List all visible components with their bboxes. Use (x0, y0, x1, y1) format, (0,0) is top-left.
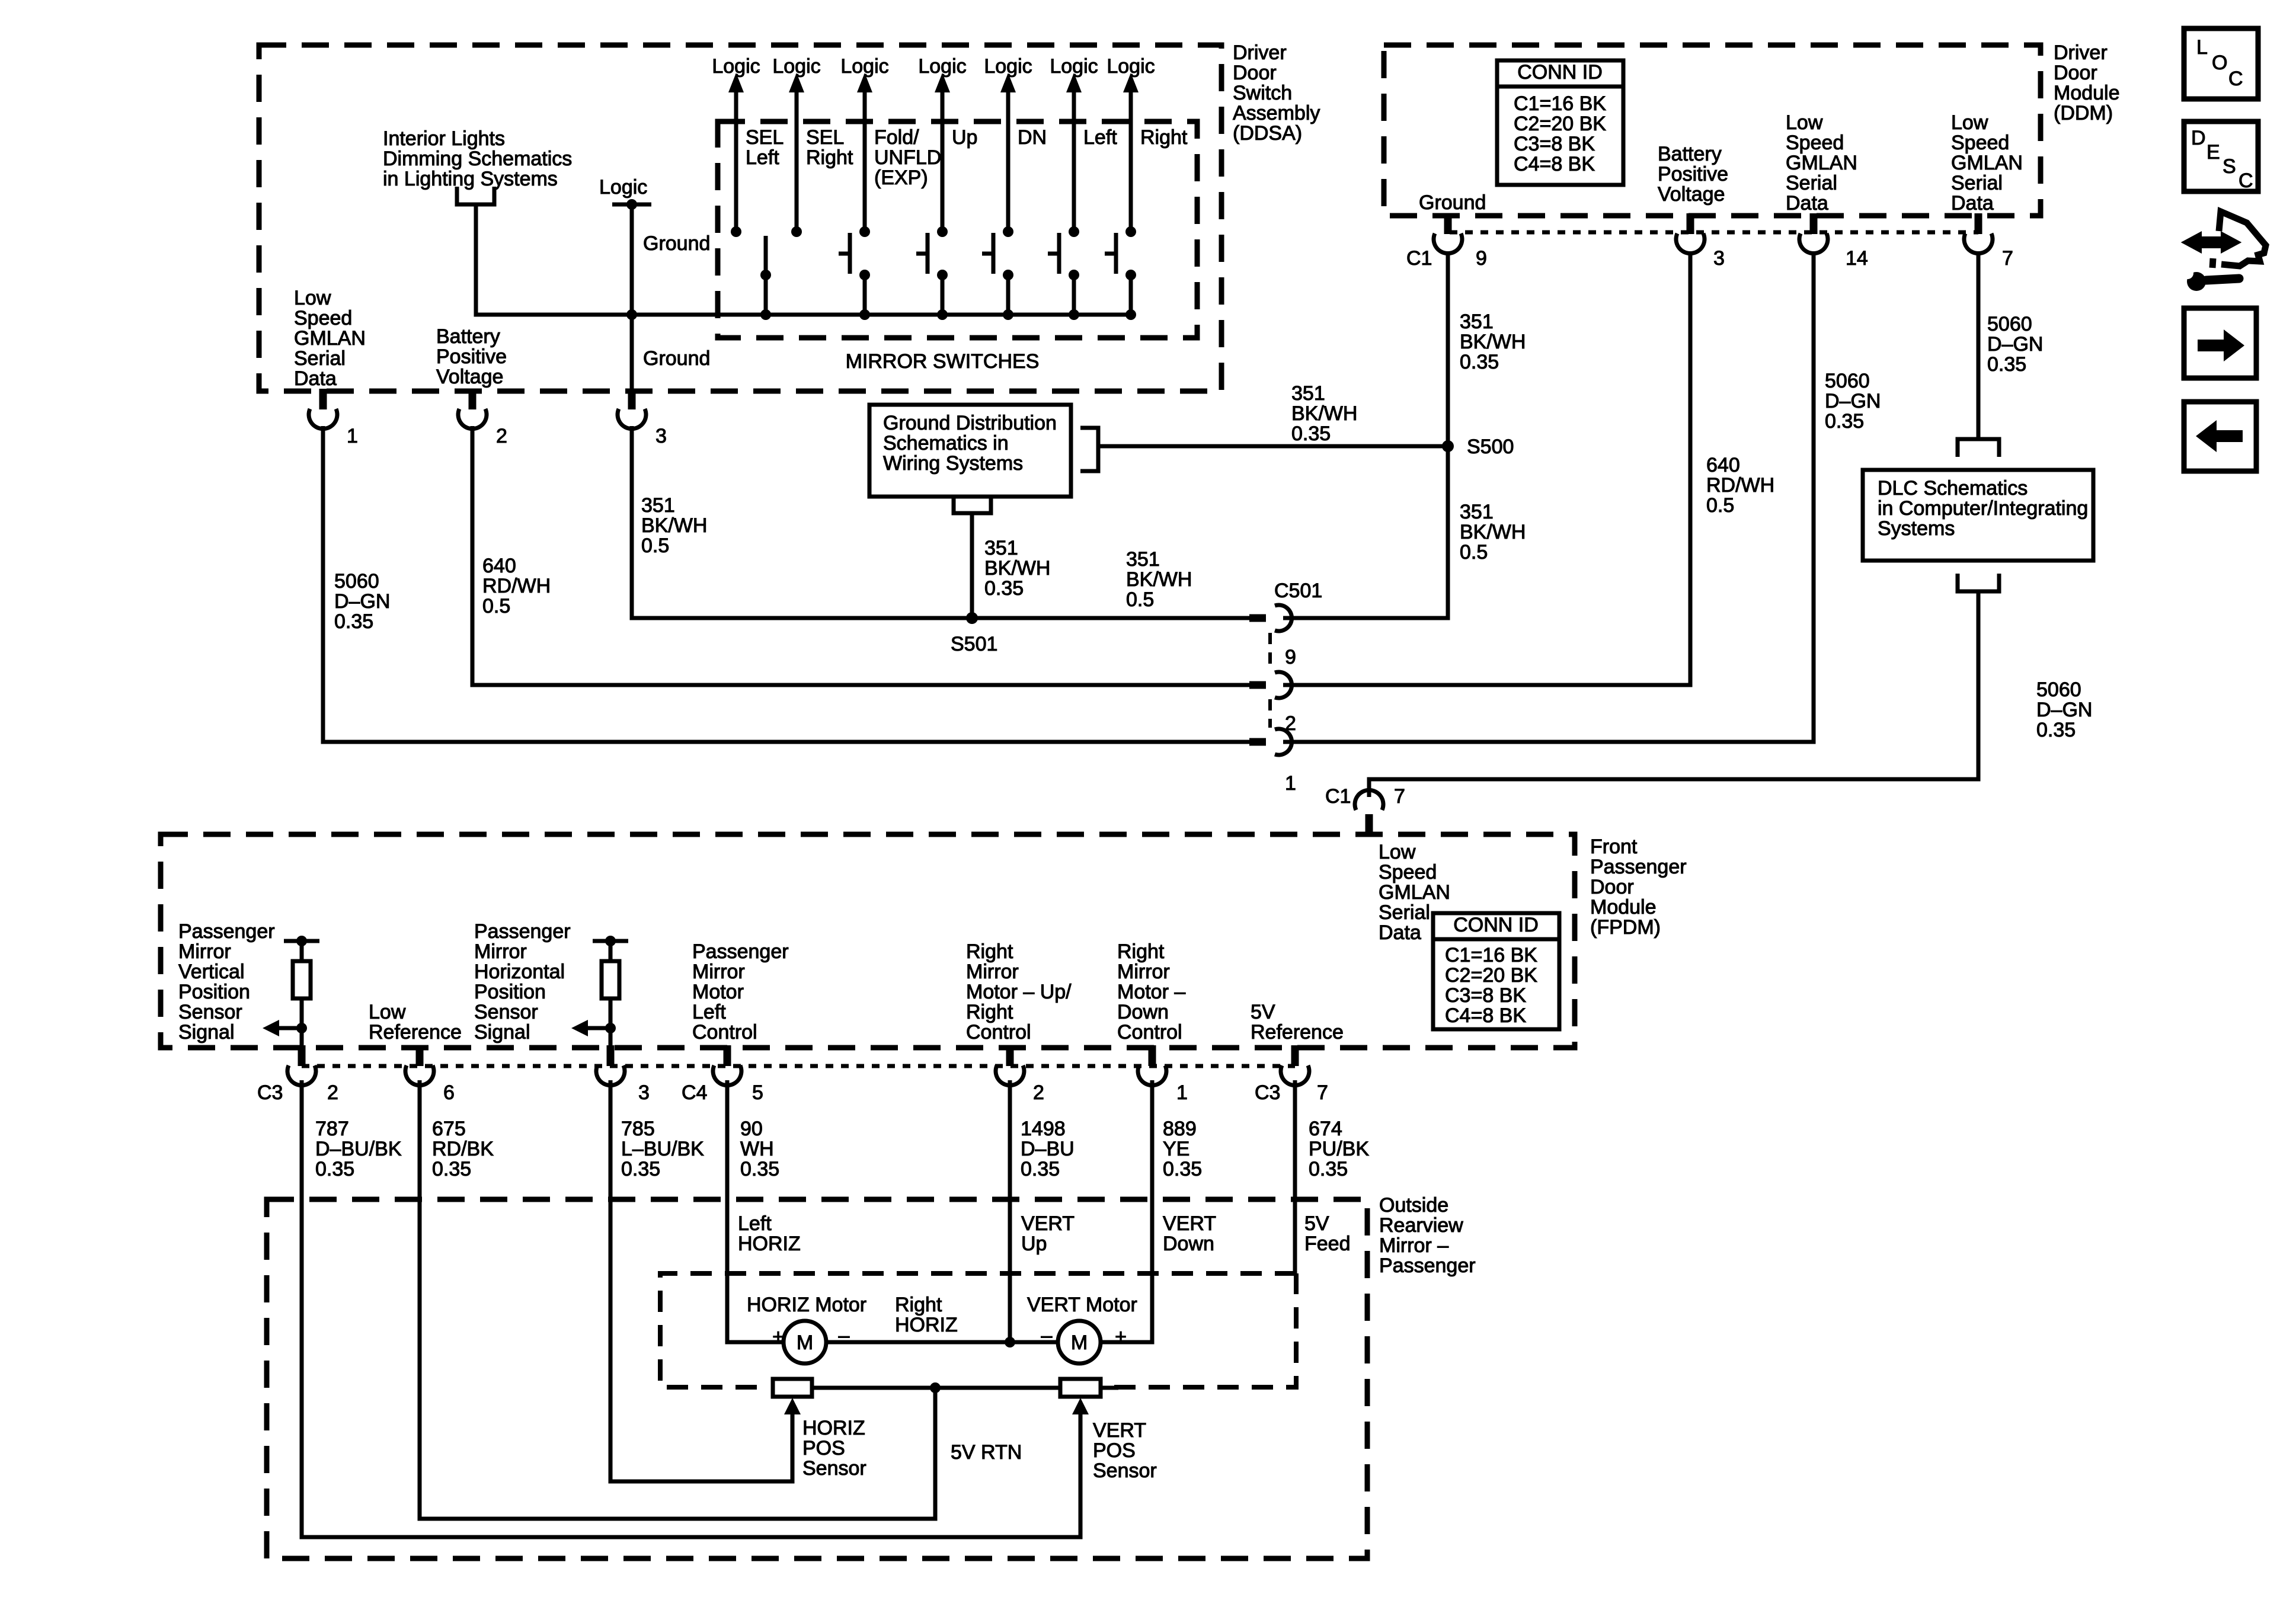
svg-text:0.5: 0.5 (641, 534, 669, 557)
svg-text:BK/WH: BK/WH (1460, 521, 1526, 543)
DDM C1 connector label (1406, 247, 1432, 270)
svg-text:5: 5 (752, 1081, 763, 1104)
svg-text:Dimming Schematics: Dimming Schematics (383, 148, 572, 170)
FPDM connector strip (dotted) (302, 1064, 1295, 1068)
svg-text:Serial: Serial (1951, 172, 2003, 194)
svg-text:Outside: Outside (1379, 1194, 1448, 1217)
wire label 5060 D-GN 0.35 (to FPDM) (2036, 678, 2092, 741)
svg-text:Sensor: Sensor (474, 1001, 538, 1023)
Ground label lower (643, 347, 710, 370)
svg-text:0.35: 0.35 (1291, 422, 1331, 445)
svg-text:351: 351 (1460, 501, 1494, 523)
svg-text:Low: Low (1786, 111, 1823, 134)
svg-text:VERT Motor: VERT Motor (1027, 1294, 1137, 1316)
FPDM connector pin 7 at x=2185 (1281, 1045, 1328, 1104)
svg-text:Low: Low (1951, 111, 1988, 134)
svg-text:Left: Left (692, 1001, 726, 1023)
svg-text:Reference: Reference (369, 1021, 462, 1044)
HORIZ motor + terminal label (772, 1326, 784, 1348)
svg-text:0.5: 0.5 (482, 595, 510, 617)
svg-text:Up: Up (1021, 1233, 1047, 1255)
signal junction with arrow (horizontal) (571, 1020, 616, 1036)
svg-text:RD/WH: RD/WH (482, 575, 551, 597)
wire label 640 RD/WH 0.5 (482, 555, 551, 617)
DLC Schematics reference box (1863, 470, 2093, 561)
svg-text:Control: Control (966, 1021, 1031, 1044)
svg-text:–: – (1041, 1324, 1053, 1347)
svg-text:Right: Right (1117, 940, 1165, 963)
svg-text:+: + (772, 1326, 784, 1348)
svg-text:0.35: 0.35 (621, 1158, 660, 1180)
svg-text:Passenger: Passenger (178, 920, 275, 943)
switch dn contact (T-bar) and wire to ground bus (982, 233, 1013, 320)
svg-text:5060: 5060 (334, 570, 379, 593)
svg-text:Battery: Battery (1658, 143, 1722, 165)
svg-text:6: 6 (443, 1081, 455, 1104)
svg-text:D–BU: D–BU (1021, 1138, 1075, 1160)
HORIZ Motor label (747, 1294, 866, 1316)
FPDM Low Reference label (369, 1001, 462, 1044)
svg-text:Positive: Positive (1658, 163, 1728, 185)
forward arrow icon box (2184, 308, 2256, 378)
VERT Motor label (1027, 1294, 1137, 1316)
Logic label for ground tap (599, 176, 647, 199)
FPDM CONN ID table (1433, 913, 1559, 1029)
svg-text:351: 351 (641, 494, 675, 517)
svg-text:Reference: Reference (1251, 1021, 1344, 1044)
svg-text:Logic: Logic (599, 176, 647, 199)
Left HORIZ label (738, 1212, 801, 1255)
wire label 5060 D-GN 0.35 (334, 570, 390, 633)
wire label 640 RD/WH 0.5 (DDM pin 3) (1706, 454, 1774, 517)
svg-text:Passenger: Passenger (1379, 1254, 1476, 1277)
FPDM C4 connector label (682, 1081, 707, 1104)
DDM CONN ID table (1497, 60, 1623, 185)
wire label 351 BK/WH 0.5 (641, 494, 707, 557)
FPDM Right Mirror Motor Up/Right Control label (966, 940, 1072, 1044)
svg-text:0.35: 0.35 (2036, 719, 2076, 741)
svg-text:C4: C4 (682, 1081, 707, 1104)
svg-text:DLC Schematics: DLC Schematics (1878, 477, 2028, 500)
svg-text:Rearview: Rearview (1379, 1214, 1463, 1237)
svg-text:RD/WH: RD/WH (1706, 474, 1774, 497)
battery bus wire C501 to DDM pin 3 (1283, 251, 1690, 685)
C501 pin 2 terminal (1249, 672, 1296, 735)
svg-text:Up: Up (952, 126, 977, 149)
svg-text:Data: Data (1786, 192, 1828, 215)
svg-text:GMLAN: GMLAN (1951, 152, 2023, 174)
Low Speed GMLAN Serial Data label (DDSA pin 1) (294, 287, 366, 390)
wire 674 PU/BK: FPDM pin 7 (5V feed) to mirror assembly (1293, 1080, 1297, 1273)
svg-text:Signal: Signal (178, 1021, 235, 1044)
svg-text:Serial: Serial (1379, 901, 1430, 924)
svg-text:Door: Door (1590, 876, 1634, 898)
MIRROR SWITCHES label (846, 350, 1040, 373)
svg-text:Fold/: Fold/ (874, 126, 919, 149)
signal junction with arrow (vertical) (263, 1020, 307, 1036)
svg-text:Serial: Serial (1786, 172, 1837, 194)
svg-text:C3=8 BK: C3=8 BK (1514, 133, 1595, 155)
svg-text:90: 90 (740, 1118, 763, 1140)
svg-text:BK/WH: BK/WH (1291, 402, 1357, 425)
Driver Door Switch Assembly (DDSA) module box (259, 45, 1221, 391)
DDM connector C1 pin 3 (1676, 213, 1725, 270)
FPDM 5V Reference label (1251, 1001, 1344, 1044)
Ground Distribution Schematics reference box (869, 405, 1071, 497)
svg-text:D–GN: D–GN (334, 590, 390, 613)
svg-text:0.35: 0.35 (334, 610, 373, 633)
svg-text:Motor – Up/: Motor – Up/ (966, 981, 1072, 1003)
switch left name label (1083, 126, 1117, 149)
svg-text:BK/WH: BK/WH (1460, 331, 1526, 353)
ground bus inside DDSA / mirror switches (626, 309, 1131, 320)
svg-text:Driver: Driver (2054, 41, 2108, 64)
svg-text:SEL: SEL (806, 126, 844, 149)
svg-text:BK/WH: BK/WH (984, 557, 1050, 580)
VERT motor - terminal label (1041, 1324, 1053, 1347)
switch fold name label (874, 126, 941, 189)
HORIZ motor M1 (784, 1321, 826, 1363)
VERT motor M2 (1058, 1321, 1101, 1363)
switch selR name label (806, 126, 853, 169)
svg-text:Mirror: Mirror (178, 940, 231, 963)
wire 5060 D-GN 0.35 from DDM pin 7 to DLC box (1977, 251, 1981, 439)
VERT Up label (1021, 1212, 1075, 1255)
svg-text:MIRROR SWITCHES: MIRROR SWITCHES (846, 350, 1040, 373)
svg-text:Right: Right (806, 146, 853, 169)
Ground label upper (643, 232, 710, 255)
svg-text:0.35: 0.35 (1021, 1158, 1060, 1180)
switch right name label (1140, 126, 1188, 149)
svg-text:5V: 5V (1251, 1001, 1275, 1023)
wire 351 BK/WH 0.5 from DDSA pin 3 (ground bus) (632, 426, 1252, 618)
mirror switch fold: Logic output arrow (840, 55, 888, 237)
svg-text:0.35: 0.35 (1987, 353, 2026, 376)
FPDM vertical position sensor pull-up: top node (284, 936, 319, 946)
connector C501 label (1274, 580, 1322, 602)
svg-text:675: 675 (432, 1118, 466, 1140)
svg-text:351: 351 (1460, 311, 1494, 333)
svg-text:E: E (2207, 141, 2220, 164)
svg-text:HORIZ Motor: HORIZ Motor (747, 1294, 866, 1316)
svg-text:C1: C1 (1325, 785, 1351, 808)
Interior Lights Dimming reference label (383, 127, 572, 190)
svg-text:1: 1 (347, 425, 358, 447)
wire 5060 D-GN 0.35 from DDSA pin 1 (serial data bus) (323, 426, 1252, 742)
svg-text:Low: Low (1379, 841, 1416, 863)
FPDM connector pin 1 at x=1944 (1138, 1045, 1188, 1104)
ground bus wire C501 to below S500, up to DDM pin 9 (1283, 251, 1448, 618)
svg-text:(DDM): (DDM) (2054, 102, 2113, 124)
svg-text:DN: DN (1018, 126, 1047, 149)
wire label 351 BK/WH 0.5 (below S500) (1460, 501, 1526, 564)
FPDM connector pin 3 at x=1030 (596, 1045, 650, 1104)
svg-text:0.35: 0.35 (984, 577, 1024, 600)
svg-text:C4=8 BK: C4=8 BK (1445, 1004, 1526, 1027)
svg-text:Driver: Driver (1233, 41, 1287, 64)
FPDM connector pin 2 at x=1704 (996, 1045, 1044, 1104)
svg-text:SEL: SEL (746, 126, 784, 149)
splice S501 (966, 612, 978, 624)
connector C501 body (dashed) (1268, 633, 1272, 728)
svg-text:640: 640 (482, 555, 516, 577)
svg-text:Mirror: Mirror (1117, 961, 1170, 983)
svg-text:Signal: Signal (474, 1021, 530, 1044)
wire label 785 (621, 1118, 704, 1180)
svg-text:Right: Right (966, 1001, 1013, 1023)
wire label 5060 D-GN 0.35 (DDM pin 7) (1987, 313, 2043, 376)
svg-text:C1=16 BK: C1=16 BK (1445, 944, 1537, 966)
wire from Ground Distribution bracket down to S501 (970, 513, 974, 618)
mirror switch right: Logic output arrow (1107, 55, 1155, 237)
C501 pin 9 terminal (1249, 605, 1296, 668)
svg-text:Serial: Serial (294, 347, 346, 370)
svg-text:Low: Low (294, 287, 331, 309)
svg-text:Positive: Positive (436, 345, 507, 368)
svg-text:CONN ID: CONN ID (1453, 914, 1539, 936)
svg-text:D–GN: D–GN (1987, 333, 2043, 356)
svg-text:5060: 5060 (1825, 370, 1870, 392)
svg-text:787: 787 (315, 1118, 349, 1140)
wire label 351 BK/WH 0.35 (to S500) (1291, 382, 1357, 445)
wire 889 YE: FPDM pin 1 to VERT motor + (1101, 1080, 1152, 1342)
wire label 787 (315, 1118, 402, 1180)
wire 1498 D-BU: FPDM pin 2 to motor common (1008, 1080, 1012, 1342)
VERT POS sensor element (1060, 1379, 1101, 1397)
svg-text:14: 14 (1846, 247, 1868, 270)
svg-text:C2=20 BK: C2=20 BK (1514, 113, 1606, 135)
svg-text:in Lighting Systems: in Lighting Systems (383, 168, 558, 190)
DESC icon box (2184, 121, 2258, 192)
wire from Ground Distribution box to S500 (1098, 444, 1448, 449)
svg-text:2: 2 (327, 1081, 338, 1104)
svg-text:9: 9 (1476, 247, 1487, 270)
svg-text:Voltage: Voltage (1658, 183, 1725, 206)
svg-text:351: 351 (984, 537, 1018, 559)
svg-text:C3: C3 (1255, 1081, 1280, 1104)
DDM module name label (2054, 41, 2120, 124)
svg-text:Left: Left (1083, 126, 1117, 149)
wire label 351 BK/WH 0.5 (S501 to C501) (1126, 548, 1192, 611)
svg-text:640: 640 (1706, 454, 1740, 476)
svg-text:5V RTN: 5V RTN (951, 1441, 1022, 1464)
svg-text:D: D (2191, 127, 2206, 149)
switch selL contact blade and wire to ground bus (760, 236, 771, 320)
svg-text:0.5: 0.5 (1706, 494, 1734, 517)
Battery Positive Voltage label (DDSA pin 2) (436, 325, 507, 388)
mirror motors inner box (660, 1273, 1296, 1387)
svg-text:Down: Down (1163, 1233, 1214, 1255)
svg-text:0.35: 0.35 (1460, 351, 1499, 373)
svg-text:9: 9 (1285, 646, 1296, 668)
C501 pin 1 terminal (1249, 729, 1296, 795)
FPDM C3 connector label (left) (257, 1081, 283, 1104)
svg-text:GMLAN: GMLAN (1379, 881, 1450, 904)
svg-text:0.35: 0.35 (1825, 410, 1864, 433)
DDM Low Speed GMLAN Serial Data label (pin 14) (1786, 111, 1857, 215)
svg-text:Voltage: Voltage (436, 366, 503, 388)
wire label 90 (740, 1118, 779, 1180)
HORIZ POS sensor element (773, 1379, 812, 1397)
svg-text:Position: Position (178, 981, 250, 1003)
svg-text:C3: C3 (257, 1081, 283, 1104)
svg-text:+: + (1115, 1326, 1127, 1348)
svg-text:Feed: Feed (1304, 1233, 1351, 1255)
svg-text:Speed: Speed (294, 307, 352, 329)
svg-text:1: 1 (1176, 1081, 1188, 1104)
svg-text:0.35: 0.35 (1163, 1158, 1202, 1180)
mirror switch dn: Logic output arrow (984, 55, 1032, 237)
wire from Interior Lights bracket to ground bus (476, 204, 631, 315)
svg-text:Passenger: Passenger (692, 940, 789, 963)
wire 787 D-BU/BK: FPDM pin 2 to VERT POS sensor arrow (302, 1080, 1089, 1537)
bottom bracket of Ground Distribution box (954, 497, 991, 513)
svg-text:Right: Right (966, 940, 1013, 963)
splice S500 (1442, 440, 1454, 452)
svg-text:Door: Door (2054, 62, 2097, 84)
FPDM C3 connector label (right) (1255, 1081, 1280, 1104)
svg-text:PU/BK: PU/BK (1309, 1138, 1369, 1160)
svg-text:5060: 5060 (1987, 313, 2032, 335)
svg-text:0.35: 0.35 (740, 1158, 779, 1180)
svg-text:C: C (2239, 169, 2253, 192)
svg-text:Ground: Ground (643, 347, 710, 370)
wire label 675 (432, 1118, 494, 1180)
wire 785 L-BU/BK: FPDM pin 3 to HORIZ POS sensor arrow (610, 1080, 801, 1481)
FPDM module name label (1590, 836, 1687, 939)
svg-text:S: S (2223, 155, 2236, 178)
Outside Rearview Mirror - Passenger label (1379, 1194, 1476, 1277)
svg-text:Wiring Systems: Wiring Systems (883, 452, 1023, 475)
svg-text:WH: WH (740, 1138, 774, 1160)
back arrow icon box (2184, 402, 2256, 471)
svg-text:Module: Module (1590, 896, 1657, 918)
FPDM horizontal position sensor pull-up: top node (593, 936, 628, 946)
svg-text:351: 351 (1291, 382, 1325, 405)
wire label 351 BK/WH 0.35 (DDM pin 9) (1460, 311, 1526, 373)
FPDM Low Speed GMLAN Serial Data label (1379, 841, 1450, 944)
wire label 351 BK/WH 0.35 (to S501) (984, 537, 1050, 600)
svg-text:UNFLD: UNFLD (874, 146, 941, 169)
MIRROR SWITCHES sub-box (718, 121, 1197, 338)
DDM Battery Positive Voltage label (1658, 143, 1728, 206)
switch left contact (T-bar) and wire to ground bus (1048, 233, 1079, 320)
svg-text:0.35: 0.35 (1309, 1158, 1348, 1180)
wire label 674 (1309, 1118, 1369, 1180)
resistor (horizontal position sensor) (602, 943, 619, 1045)
mirror switch selR: Logic output arrow (772, 55, 820, 237)
resistor (vertical position sensor) (293, 943, 311, 1045)
svg-text:YE: YE (1163, 1138, 1189, 1160)
switch selL name label (746, 126, 784, 169)
VERT Down label (1163, 1212, 1216, 1255)
svg-text:Sensor: Sensor (178, 1001, 242, 1023)
svg-text:Position: Position (474, 981, 546, 1003)
svg-text:C1=16 BK: C1=16 BK (1514, 92, 1606, 115)
svg-text:Horizontal: Horizontal (474, 961, 565, 983)
FPDM Passenger Mirror Horizontal Position Sensor Signal label (474, 920, 571, 1044)
Driver Door Module (DDM) box (1384, 45, 2041, 216)
FPDM connector pin 6 at x=708 (405, 1045, 455, 1104)
svg-text:Module: Module (2054, 82, 2120, 104)
svg-text:Low: Low (369, 1001, 406, 1023)
svg-text:M: M (797, 1331, 813, 1354)
svg-text:3: 3 (638, 1081, 650, 1104)
svg-text:Speed: Speed (1951, 132, 2009, 154)
DDSA module name label (1233, 41, 1320, 145)
svg-text:Systems: Systems (1878, 517, 1955, 540)
5V RTN link between position sensors (812, 1382, 1118, 1393)
svg-text:POS: POS (1093, 1439, 1136, 1462)
svg-text:Right: Right (1140, 126, 1188, 149)
wire label 5060 D-GN 0.35 (DDM pin 14) (1825, 370, 1881, 433)
svg-text:D–GN: D–GN (1825, 390, 1881, 412)
FPDM connector pin 2 at x=509 (287, 1045, 338, 1104)
serial data bus wire C501 to DDM pin 14 (1283, 251, 1814, 742)
DDSA connector pin 2 (458, 389, 507, 447)
svg-text:889: 889 (1163, 1118, 1197, 1140)
DDM Ground label (1419, 191, 1486, 214)
svg-text:1498: 1498 (1021, 1118, 1066, 1140)
bottom bracket of DLC box (1958, 574, 1999, 591)
svg-text:D–BU/BK: D–BU/BK (315, 1138, 402, 1160)
svg-text:Motor –: Motor – (1117, 981, 1185, 1003)
switch up contact (T-bar) and wire to ground bus (916, 233, 948, 320)
switch up name label (952, 126, 977, 149)
svg-text:Left: Left (746, 146, 779, 169)
5V RTN label (951, 1441, 1022, 1464)
svg-text:2: 2 (496, 425, 507, 447)
svg-text:(FPDM): (FPDM) (1590, 916, 1661, 939)
svg-text:Ground: Ground (1419, 191, 1486, 214)
DDM connector strip C1 (dotted) (1450, 231, 1978, 235)
svg-text:Passenger: Passenger (1590, 856, 1687, 878)
svg-text:HORIZ: HORIZ (738, 1233, 801, 1255)
svg-text:S500: S500 (1467, 436, 1514, 458)
svg-text:Door: Door (1233, 62, 1277, 84)
Front Passenger Door Module (FPDM) box (161, 834, 1575, 1048)
wire 5060 D-GN 0.35 from DLC box to FPDM C1 pin 7 (1369, 591, 1978, 797)
svg-text:7: 7 (1394, 785, 1405, 808)
svg-text:Switch: Switch (1233, 82, 1292, 104)
svg-text:VERT: VERT (1093, 1419, 1146, 1442)
svg-text:BK/WH: BK/WH (641, 514, 707, 537)
5V Feed label (1304, 1212, 1351, 1255)
vehicle description icon (car outline, double arrow, wrench) (2182, 212, 2266, 291)
DDSA connector pin 1 (309, 389, 358, 447)
svg-text:Left: Left (738, 1212, 772, 1235)
wire HORIZ motor to VERT motor (common) (826, 1337, 1058, 1347)
switch right contact (T-bar) and wire to ground bus (1105, 233, 1136, 320)
S501 label (951, 633, 997, 655)
off-page bracket under Interior Lights label (457, 187, 494, 204)
FPDM Passenger Mirror Motor Left Control label (692, 940, 789, 1044)
wire 640 RD/WH 0.5 from DDSA pin 2 (battery bus) (472, 426, 1252, 685)
svg-text:Assembly: Assembly (1233, 102, 1320, 124)
svg-text:Ground: Ground (643, 232, 710, 255)
svg-text:VERT: VERT (1163, 1212, 1216, 1235)
svg-text:L: L (2196, 36, 2208, 59)
switch fold contact (T-bar) and wire to ground bus (839, 233, 870, 320)
right bracket of Ground Distribution box (1080, 428, 1098, 471)
svg-text:C2=20 BK: C2=20 BK (1445, 964, 1537, 987)
svg-text:Speed: Speed (1786, 132, 1844, 154)
wire 675 RD/BK: FPDM pin 6 to 5V RTN junction (420, 1080, 935, 1519)
Logic tap T-bar and node (612, 199, 651, 210)
mirror switch selL: Logic output arrow (712, 55, 760, 237)
DDM connector C1 pin 9 (1434, 213, 1487, 270)
VERT POS Sensor label (1093, 1419, 1157, 1482)
